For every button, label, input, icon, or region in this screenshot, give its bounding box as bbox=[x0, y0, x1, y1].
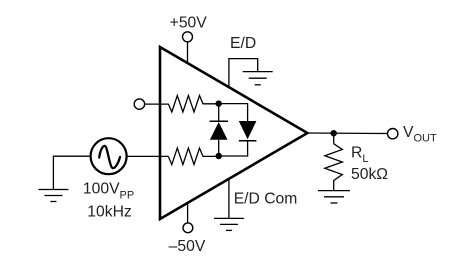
svg-text:–50V: –50V bbox=[169, 238, 206, 255]
svg-text:100VPP: 100VPP bbox=[83, 181, 134, 202]
svg-text:+50V: +50V bbox=[170, 14, 208, 31]
svg-text:VOUT: VOUT bbox=[403, 124, 437, 145]
svg-text:10kHz: 10kHz bbox=[87, 204, 132, 221]
svg-text:E/D Com: E/D Com bbox=[234, 190, 298, 207]
svg-text:E/D: E/D bbox=[230, 35, 256, 52]
svg-text:50kΩ: 50kΩ bbox=[351, 166, 388, 183]
svg-text:RL: RL bbox=[351, 144, 368, 165]
